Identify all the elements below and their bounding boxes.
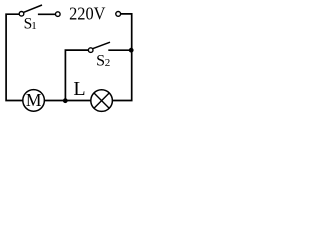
220V right terminal circle bbox=[116, 12, 121, 17]
switch S1 terminal circle (left) bbox=[19, 12, 24, 17]
junction B dot bbox=[129, 48, 134, 53]
svg-text:M: M bbox=[26, 90, 42, 110]
wire: S1 stub to 220V left terminal bbox=[38, 13, 56, 15]
lamp L circle bbox=[91, 90, 113, 112]
svg-text:1: 1 bbox=[31, 20, 37, 32]
wire: S2 branch (left segment + vertical down to junction A) bbox=[65, 50, 88, 100]
junction A dot bbox=[63, 98, 68, 103]
motor M bbox=[23, 90, 45, 112]
svg-text:220V: 220V bbox=[69, 4, 105, 24]
svg-text:L: L bbox=[73, 78, 85, 100]
wire: motor to lamp through junction A bbox=[44, 100, 91, 102]
switch S1 terminal circle (right) bbox=[56, 12, 61, 17]
wire: S2 stub to right border bbox=[108, 49, 131, 51]
switch S1 blade bbox=[23, 5, 42, 12]
lamp X cross bbox=[94, 93, 109, 108]
svg-text:S: S bbox=[96, 52, 105, 69]
switch S2 terminal circle (left) bbox=[88, 48, 93, 53]
svg-text:2: 2 bbox=[105, 57, 111, 69]
wire: top-right + right border + bottom-right to lamp bbox=[113, 14, 132, 101]
wire: top-left + left border + bottom-left to motor bbox=[6, 14, 23, 100]
switch S2 blade bbox=[93, 42, 110, 49]
